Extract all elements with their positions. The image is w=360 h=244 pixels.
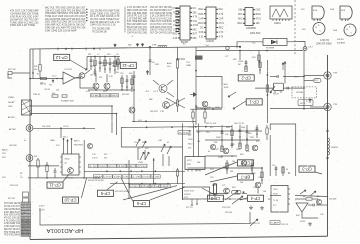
svg-text:4-R0?: 4-R0? — [39, 206, 45, 208]
note: boxed label bottom left — [270, 221, 281, 225]
capacitor C21 string — [239, 125, 242, 149]
svg-text:2SC458: 2SC458 — [329, 199, 337, 201]
note: IC U3 part number — [250, 32, 261, 35]
transistor Q12 — [210, 144, 215, 149]
svg-text:POWER: POWER — [266, 48, 275, 50]
svg-text:R110: R110 — [188, 144, 192, 146]
svg-text:104: 104 — [263, 191, 266, 193]
wire: resistor ladder row y109 — [190, 108, 222, 110]
svg-text:1K OUT DC 4.7K 6.8K: 1K OUT DC 4.7K 6.8K — [150, 24, 172, 26]
svg-text:C945: C945 — [198, 14, 204, 16]
svg-text:100 C12 45: 100 C12 45 — [234, 123, 244, 125]
svg-text:1C4: 1C4 — [137, 148, 140, 150]
svg-text:OSC SW OUT MIC MIC: OSC SW OUT MIC MIC — [150, 7, 172, 9]
transistor Q3 with cross wires — [160, 98, 185, 113]
wire: bottom right rows — [295, 198, 306, 200]
tape head feed wires — [63, 137, 84, 155]
svg-text:100K OSC OUT BIAS: 100K OSC OUT BIAS — [127, 29, 147, 32]
note: label — [314, 80, 319, 82]
svg-text:2SC: 2SC — [2, 177, 6, 179]
transistor Q14 — [241, 160, 246, 165]
resistor R13 string — [252, 51, 260, 67]
IC U7 box — [185, 157, 205, 172]
note: CP-3 pointer — [315, 172, 322, 174]
svg-text:C41: C41 — [197, 141, 200, 143]
transistor Q9 — [255, 182, 261, 193]
svg-text:TP2 TONE: TP2 TONE — [22, 235, 30, 237]
motor block outline M1 — [270, 124, 296, 176]
svg-text:104: 104 — [34, 69, 37, 71]
resistor R9 — [192, 109, 194, 123]
wire: second top rail — [196, 50, 303, 52]
node CP-5 callout — [208, 195, 224, 201]
node CP-12 callout — [54, 54, 70, 60]
op-amp U5 triangle — [62, 69, 80, 84]
svg-text:SP OUT: SP OUT — [8, 198, 16, 200]
node: CP-7 pointer — [210, 176, 237, 182]
svg-text:0.047 REC PLAY: 0.047 REC PLAY — [4, 211, 20, 214]
inductor L1 on bus — [158, 45, 167, 46]
wire: rail y63 — [100, 62, 120, 64]
note: plug text — [8, 198, 16, 200]
IC U1 pinout (16-pin DIP) — [172, 6, 198, 44]
relay RL1 box — [273, 83, 283, 95]
note: amp left column labels — [188, 127, 201, 150]
svg-text:4.7K: 4.7K — [219, 32, 224, 34]
resistor R10 — [204, 109, 206, 123]
wire: amp row y140 — [205, 139, 260, 141]
wire: top-right feed — [237, 42, 263, 49]
svg-text:C945 10V16 47V10 47V10: C945 10V16 47V10 47V10 — [150, 27, 173, 29]
svg-text:NJM4558: NJM4558 — [246, 28, 257, 30]
svg-text:47K GND A733 TONE: 47K GND A733 TONE — [150, 12, 172, 15]
capacitor C14 string — [251, 160, 254, 174]
svg-text:560 47V10 VCC VCC: 560 47V10 VCC VCC — [127, 27, 147, 29]
node: CP-1 pointer — [233, 101, 246, 109]
svg-text:6.8K C945 220 10V16 AMP: 6.8K C945 220 10V16 AMP — [45, 29, 77, 32]
svg-text:104: 104 — [116, 72, 119, 74]
svg-text:CP-3: CP-3 — [302, 167, 312, 172]
svg-text:EXT: EXT — [193, 34, 198, 36]
svg-text:REC: REC — [199, 9, 204, 11]
svg-text:560 CAP AMP PLAY: 560 CAP AMP PLAY — [127, 23, 147, 26]
svg-text:C55: C55 — [120, 73, 123, 75]
svg-text:OSC: OSC — [99, 166, 108, 168]
resistor R26 string — [131, 75, 133, 92]
svg-text:4051-B13: 4051-B13 — [250, 32, 261, 35]
node junction — [32, 72, 34, 74]
node: CP-9 pointer — [107, 182, 118, 190]
svg-text:TP2 TONE 47K: TP2 TONE 47K — [4, 232, 20, 234]
svg-text:EXT SP: EXT SP — [8, 69, 16, 71]
wire: vertical x84 — [83, 140, 85, 178]
wire: bus ticks — [58, 48, 100, 51]
sub-circuit box — [196, 77, 222, 109]
wire: vertical x153.7 — [153, 158, 155, 184]
svg-text:T5L: T5L — [272, 165, 275, 167]
svg-text:MIC: MIC — [238, 19, 243, 21]
svg-text:C77: C77 — [222, 185, 225, 187]
svg-text:R60: R60 — [129, 73, 132, 75]
svg-text:XXX XX: XXX XX — [281, 224, 289, 226]
transistor Q-b package outline — [330, 6, 352, 21]
svg-text:XXXX: XXXX — [300, 221, 306, 223]
svg-text:100R: 100R — [216, 137, 221, 139]
node CP-3 callout — [299, 166, 315, 172]
svg-text:ROCK: ROCK — [273, 94, 279, 96]
svg-text:ECB: ECB — [341, 10, 346, 12]
svg-text:LA4160: LA4160 — [206, 40, 215, 43]
resistor R7 string — [114, 57, 116, 75]
svg-text:SW: SW — [197, 162, 200, 164]
svg-text:REC/PBO: REC/PBO — [74, 145, 83, 147]
svg-text:45C11: 45C11 — [300, 103, 305, 105]
node CP-8 callout — [238, 160, 254, 166]
note: labels under rows — [88, 180, 129, 193]
svg-text:CP-6: CP-6 — [136, 201, 146, 206]
note: boxed labels under transistors — [91, 94, 119, 98]
svg-text:C1 2012: C1 2012 — [64, 69, 73, 71]
wire: left vertical inner — [32, 49, 34, 79]
ground GND1 — [249, 206, 253, 210]
node: CP-12 pointer — [70, 60, 87, 70]
svg-text:C31: C31 — [253, 187, 256, 189]
wire: drop x304 — [303, 51, 305, 111]
svg-text:12AR: 12AR — [186, 64, 192, 67]
svg-text:YTB: YTB — [333, 104, 338, 106]
wire: loop B — [30, 114, 117, 136]
connector J2 line out jack — [304, 72, 338, 79]
note: pointer arrows — [300, 190, 306, 194]
note: bullet dots block B — [86, 9, 88, 22]
svg-text:47V10: 47V10 — [137, 166, 148, 168]
svg-text:2.2K: 2.2K — [173, 38, 178, 40]
node CP-1 callout — [246, 99, 262, 105]
capacitor C22 string — [126, 75, 129, 91]
svg-text:XXX: XXX — [184, 197, 189, 199]
svg-text:MIC: MIC — [193, 29, 198, 31]
wire: row y59 — [176, 58, 185, 60]
svg-text:C95: C95 — [231, 144, 234, 146]
svg-text:40XXX: 40XXX — [337, 39, 344, 41]
node CP-10 callout — [63, 197, 79, 203]
svg-text:2SC: 2SC — [2, 157, 6, 159]
note: motor block inner cluster — [272, 165, 290, 176]
svg-text:47V1: 47V1 — [256, 19, 262, 21]
resistor R8 — [167, 47, 179, 75]
svg-text:CP-1: CP-1 — [249, 99, 259, 104]
svg-text:33K C34 560 1500: 33K C34 560 1500 — [127, 13, 148, 15]
transistor Q7 — [223, 148, 229, 154]
svg-text:C8: C8 — [116, 54, 118, 56]
svg-text:OTO10: OTO10 — [188, 127, 194, 129]
resistor R29 oval — [304, 79, 321, 83]
connector J5 remote jack — [2, 140, 33, 179]
note: MDC label — [224, 84, 229, 89]
op-amp U10 triangle — [296, 203, 308, 212]
resistor R22 string — [117, 57, 119, 71]
svg-text:OSC: OSC — [123, 176, 132, 178]
transistor Q4 inside box — [200, 101, 208, 110]
svg-text:43XB08: 43XB08 — [337, 43, 346, 45]
note: C12 LOOX labels — [92, 154, 107, 160]
node CP-4 callout — [248, 195, 264, 201]
node: pointer into box — [228, 92, 236, 97]
oscillator module box — [298, 100, 313, 106]
note: left margin labels — [2, 153, 22, 179]
resistor R17 — [213, 183, 216, 199]
note: misc labels — [61, 100, 75, 103]
wire: long diagonal 2 — [150, 187, 185, 200]
svg-text:4.7K: 4.7K — [89, 166, 98, 168]
svg-text:C97A: C97A — [238, 60, 243, 63]
capacitor C3 on x150 — [149, 60, 152, 61]
transistor Q11 second stage — [75, 70, 90, 78]
transistor Q-d package outline (bottom view) — [333, 24, 356, 36]
svg-text:R52: R52 — [34, 156, 37, 158]
note: labels under CP-12 — [120, 73, 132, 96]
svg-text:TR8: TR8 — [250, 137, 254, 139]
svg-text:VR8: VR8 — [155, 64, 159, 66]
note: ladder labels — [195, 107, 220, 109]
note: label C14 — [186, 62, 192, 67]
svg-text:REC: REC — [238, 23, 243, 25]
svg-text:R31: R31 — [214, 142, 217, 144]
transistor Q15 arrows cluster — [158, 140, 171, 166]
node: junction on bus — [149, 46, 151, 48]
svg-text:CP-4: CP-4 — [250, 196, 260, 201]
svg-text:4.7K 10V16 220: 4.7K 10V16 220 — [4, 220, 21, 222]
capacitor C20 string — [90, 57, 93, 71]
svg-text:10V16: 10V16 — [142, 176, 151, 178]
svg-text:C18: C18 — [210, 177, 213, 179]
resistor R15 — [46, 162, 48, 178]
svg-text:REC: REC — [219, 27, 224, 29]
svg-text:CP-2: CP-2 — [241, 75, 251, 80]
wire: drop x285 with arrows — [282, 61, 287, 84]
svg-text:C4: C4 — [20, 177, 22, 179]
note: 2N3 label — [10, 185, 19, 187]
transistor Q2 — [104, 74, 110, 89]
note: parts list left rule — [124, 7, 126, 33]
svg-text:OUT 220 10V16: OUT 220 10V16 — [4, 203, 21, 205]
connector J1 external jack — [8, 69, 30, 78]
wire: bias row y183.7 — [110, 183, 185, 185]
note: specification text block 3 — [90, 9, 120, 33]
capacitor C12 string — [246, 125, 249, 151]
svg-text:150R: 150R — [188, 139, 193, 141]
svg-text:0.047: 0.047 — [104, 176, 113, 178]
capacitor C10 string — [221, 125, 224, 152]
capacitor C7 — [277, 75, 278, 78]
resistor R19 string — [261, 168, 263, 184]
note: left cluster labels — [33, 66, 59, 96]
svg-text:XXXXX: XXXXX — [184, 194, 191, 196]
ground GND2 — [308, 222, 312, 226]
svg-text:C41: C41 — [225, 134, 228, 136]
note: under-U8 marks — [186, 199, 198, 209]
svg-text:2.2K TONE REC AMP: 2.2K TONE REC AMP — [127, 17, 147, 20]
wire: drop x198.5 — [198, 124, 200, 158]
svg-text:BIAS: BIAS — [256, 13, 262, 16]
svg-text:BA? 5: BA? 5 — [74, 140, 80, 143]
potentiometer VR1 — [49, 78, 63, 87]
connector J4 mic jack — [9, 125, 33, 132]
svg-text:6.8K: 6.8K — [199, 32, 204, 34]
svg-text:47R 100: 47R 100 — [225, 212, 232, 214]
capacitor C6 — [287, 87, 288, 90]
IC U4 internal schematic box — [270, 6, 292, 25]
svg-text:4.7K: 4.7K — [193, 17, 198, 19]
svg-text:R18: R18 — [248, 133, 251, 135]
wire: drop x240 — [239, 51, 241, 61]
svg-text:R12: R12 — [173, 12, 178, 14]
node: CP-6 pointer — [121, 178, 133, 202]
transistor Q8 — [252, 145, 258, 151]
wire: drop x61 — [60, 128, 62, 138]
svg-text:HP-AD1001A: HP-AD1001A — [46, 227, 83, 233]
note: parts list table — [127, 7, 173, 34]
node: arrows pair — [225, 191, 238, 200]
wire: row y88 — [255, 87, 273, 89]
svg-text:C4R: C4R — [158, 140, 162, 142]
svg-text:CP-10: CP-10 — [64, 198, 77, 203]
svg-text:C77: C77 — [225, 56, 228, 58]
note: corner text — [337, 39, 346, 45]
svg-text:45: 45 — [208, 151, 210, 153]
svg-text:GND CAP RES BIAS: GND CAP RES BIAS — [4, 208, 20, 211]
wire: drop x134 — [133, 71, 135, 121]
node CP-2 callout — [238, 75, 254, 81]
transistor Q5 — [87, 143, 92, 148]
note: labels mid — [138, 99, 158, 122]
wire: main top bus — [30, 47, 240, 50]
svg-text:C77: C77 — [188, 135, 191, 137]
IC U9 box bottom right — [271, 186, 290, 213]
resistor R12 — [266, 85, 268, 92]
svg-text:47V10 4.7K OUT: 47V10 4.7K OUT — [4, 206, 21, 208]
resistor R21 — [306, 198, 318, 200]
wire: row y177.9 — [28, 177, 100, 179]
svg-text:TXR: TXR — [152, 45, 157, 47]
svg-text:R44: R44 — [212, 185, 215, 187]
svg-text:XD18B: XD18B — [296, 92, 303, 94]
resistor R25 string — [121, 75, 123, 90]
svg-text:2N3055: 2N3055 — [331, 147, 339, 149]
capacitor C24 on x134 — [133, 76, 136, 77]
node CP-9 callout — [98, 190, 114, 196]
resistor R24 string — [226, 160, 228, 174]
svg-text:DC: DC — [193, 8, 197, 10]
svg-text:PLAY 2SA733 A733: PLAY 2SA733 A733 — [4, 214, 21, 217]
node: pointer — [270, 86, 275, 93]
svg-text:2N3 XXX: 2N3 XXX — [10, 185, 19, 187]
capacitor C8 — [306, 98, 311, 103]
svg-text:150R: 150R — [138, 162, 143, 164]
note: rail labels — [225, 43, 314, 62]
svg-text:VCC: VCC — [108, 166, 117, 168]
wire: row y90 — [88, 89, 132, 91]
capacitor C9 — [54, 168, 57, 178]
svg-text:MIC: MIC — [193, 38, 198, 40]
diode D1 power in box — [263, 39, 287, 50]
note: bus labels — [128, 43, 186, 46]
svg-text:XTAL 45: XTAL 45 — [33, 93, 40, 96]
svg-text:C31: C31 — [258, 177, 261, 179]
resistor R20 bumps on right frame — [328, 138, 339, 155]
wire: left frame — [29, 49, 31, 240]
wire: y199 row — [209, 198, 215, 200]
node: arrow bottom — [250, 219, 258, 226]
svg-text:A733 CAP 0.01: A733 CAP 0.01 — [4, 225, 21, 228]
note: specification text block 1 — [10, 9, 39, 27]
svg-text:EQ AMP 4558: EQ AMP 4558 — [61, 100, 75, 103]
svg-text:CP-12: CP-12 — [122, 63, 135, 68]
svg-text:330: 330 — [52, 93, 55, 95]
svg-text:REC: REC — [127, 166, 136, 168]
IC U8 box — [183, 187, 210, 199]
resistor R2 — [40, 77, 47, 84]
svg-text:XXX XXX: XXX XXX — [222, 207, 231, 209]
dashed box oscillator — [292, 87, 317, 98]
wire: drop x196 — [195, 47, 197, 125]
note: labels — [34, 139, 60, 158]
svg-text:2.2K: 2.2K — [132, 176, 141, 178]
node: CP-11 pointer — [63, 174, 69, 181]
node: CP-4 pointer — [240, 198, 247, 200]
svg-text:C945 TR VIEW: C945 TR VIEW — [316, 44, 332, 46]
svg-text:VR: VR — [49, 85, 52, 87]
svg-text:AFTER: AFTER — [9, 128, 16, 131]
svg-text:0.01: 0.01 — [199, 37, 204, 39]
wire: row y128.3 — [33, 127, 95, 129]
wire: loop top joins — [111, 105, 113, 107]
svg-text:45R 141R 450R: 45R 141R 450R — [115, 191, 129, 193]
svg-text:R55: R55 — [246, 151, 249, 153]
wire: row y108.5 — [270, 108, 328, 110]
svg-text:100R: 100R — [236, 149, 241, 151]
svg-text:MIC: MIC — [173, 21, 178, 23]
svg-text:CP-12: CP-12 — [55, 55, 68, 60]
svg-text:104: 104 — [56, 90, 59, 92]
wire: row y121.3 — [132, 120, 196, 122]
resistor R28 — [176, 75, 178, 112]
svg-text:LINE: LINE — [8, 106, 13, 108]
svg-text:1A7: 1A7 — [188, 130, 191, 133]
svg-text:A733 TR: A733 TR — [320, 39, 329, 42]
wire: drop x150 from bus — [149, 47, 151, 75]
svg-text:DELAY: DELAY — [8, 101, 15, 104]
svg-text:R77 C3: R77 C3 — [186, 207, 192, 209]
note: binder mark column — [176, 8, 180, 32]
wire: drop x193.5 — [193, 124, 195, 158]
svg-text:470: 470 — [256, 141, 259, 143]
wire: bottom interior run — [40, 208, 250, 225]
wire: row y193.5 — [210, 193, 228, 195]
svg-text:10K DC 47V10 IN R12: 10K DC 47V10 IN R12 — [150, 30, 173, 32]
wire: bias row y171.3 — [84, 170, 185, 172]
note: component labels — [92, 66, 116, 68]
svg-text:47V10: 47V10 — [179, 132, 191, 134]
svg-text:R77: R77 — [104, 154, 107, 156]
svg-text:PLAY 0.01 IN VCC 10K: PLAY 0.01 IN VCC 10K — [150, 17, 172, 20]
transistor Q-c package outline (bottom view) — [302, 23, 325, 35]
transistor Q17 — [224, 188, 230, 194]
svg-text:2.2K: 2.2K — [152, 176, 161, 178]
svg-text:10K: 10K — [256, 23, 261, 25]
node: dots on loop wire — [146, 127, 148, 129]
resistor R5 string — [104, 57, 106, 74]
